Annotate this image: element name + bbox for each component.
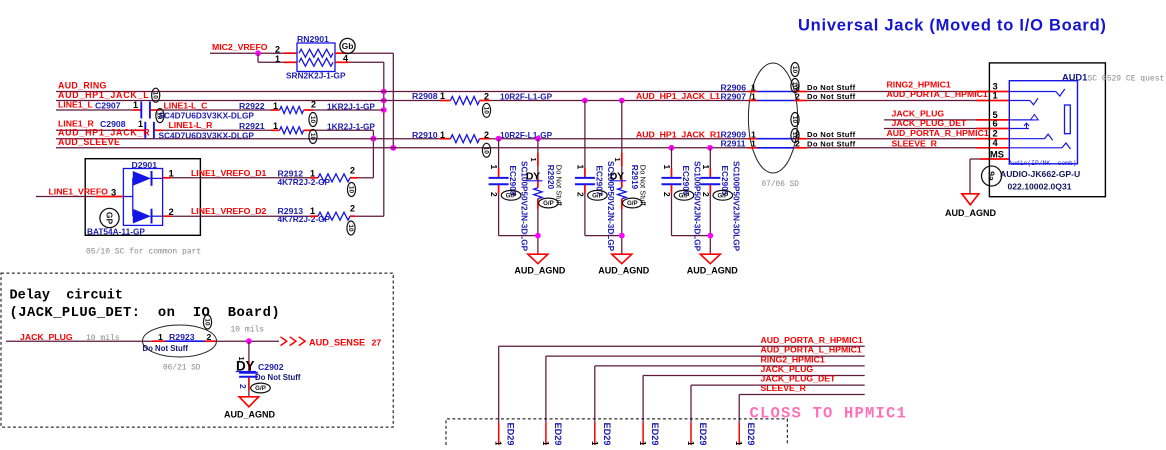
svg-text:G/P: G/P — [592, 193, 603, 200]
svg-text:10: 10 — [482, 147, 489, 155]
svg-text:2: 2 — [311, 99, 316, 109]
svg-text:LINE1-L_C: LINE1-L_C — [164, 100, 209, 110]
svg-text:Do Not Stuff: Do Not Stuff — [807, 139, 856, 148]
svg-text:Do Not Stuff: Do Not Stuff — [143, 344, 189, 353]
svg-text:05/10 SC for common part: 05/10 SC for common part — [86, 248, 201, 257]
svg-text:2: 2 — [238, 384, 248, 389]
svg-text:07/06 SD: 07/06 SD — [762, 181, 800, 189]
svg-text:022.10002.0Q31: 022.10002.0Q31 — [1008, 181, 1072, 191]
svg-text:1: 1 — [489, 165, 499, 170]
svg-text:SC4D7U6D3V3KX-DLGP: SC4D7U6D3V3KX-DLGP — [159, 111, 255, 121]
svg-text:Do Not Stuff: Do Not Stuff — [807, 130, 856, 139]
svg-text:10: 10 — [309, 133, 316, 141]
svg-text:6: 6 — [993, 119, 998, 129]
svg-text:2: 2 — [575, 192, 585, 197]
svg-text:(JACK_PLUG_DET: on IO Board: (JACK_PLUG_DET: on IO Board) — [10, 305, 281, 321]
svg-text:AUD_PORTA_L_HPMIC1: AUD_PORTA_L_HPMIC1 — [887, 89, 988, 99]
svg-text:AUD_HP1_JACK_R1: AUD_HP1_JACK_R1 — [636, 130, 721, 140]
svg-text:G/P: G/P — [627, 200, 638, 207]
svg-text:1: 1 — [590, 441, 600, 445]
svg-text:BAT54A-11-GP: BAT54A-11-GP — [87, 226, 145, 236]
svg-text:1: 1 — [273, 121, 278, 131]
svg-text:GP: GP — [104, 212, 114, 225]
svg-text:SC100P50V2JN-3DLGP: SC100P50V2JN-3DLGP — [731, 161, 740, 252]
svg-text:R2907: R2907 — [721, 91, 747, 101]
svg-text:RING2_HPMIC1: RING2_HPMIC1 — [887, 80, 951, 90]
svg-text:AUD_AGND: AUD_AGND — [598, 266, 650, 276]
svg-text:ED29: ED29 — [698, 423, 708, 446]
svg-text:10 mils: 10 mils — [231, 326, 265, 335]
svg-text:AUD_AGND: AUD_AGND — [224, 409, 276, 419]
svg-text:G/P: G/P — [506, 193, 517, 200]
svg-text:MIC2_VREFO: MIC2_VREFO — [212, 42, 268, 52]
svg-text:1: 1 — [613, 158, 622, 162]
svg-text:LINE1_VREFO: LINE1_VREFO — [49, 186, 109, 196]
svg-text:2: 2 — [701, 192, 711, 197]
svg-text:10: 10 — [347, 186, 354, 194]
svg-text:10R2F-L1-GP: 10R2F-L1-GP — [500, 91, 553, 101]
svg-text:1: 1 — [575, 165, 585, 170]
svg-text:ED29: ED29 — [506, 423, 516, 446]
svg-text:SLEEVE_R: SLEEVE_R — [892, 139, 938, 149]
svg-text:SRN2K2J-1-GP: SRN2K2J-1-GP — [286, 71, 346, 81]
svg-text:G/P: G/P — [255, 385, 266, 392]
svg-text:AUD_PORTA_R_HPMIC1: AUD_PORTA_R_HPMIC1 — [887, 128, 989, 138]
svg-text:4: 4 — [993, 138, 999, 148]
svg-text:AUD_HP1_JACK_L: AUD_HP1_JACK_L — [58, 90, 149, 100]
svg-text:AUDIO-JK662-GP-U: AUDIO-JK662-GP-U — [1000, 169, 1080, 179]
svg-text:1: 1 — [734, 441, 744, 445]
svg-text:LINE1_VREFO_D1: LINE1_VREFO_D1 — [191, 168, 266, 178]
svg-text:RING2_HPMIC1: RING2_HPMIC1 — [761, 354, 825, 364]
svg-text:10: 10 — [309, 116, 316, 124]
svg-text:Audio(IP/NK comb): Audio(IP/NK comb) — [1009, 160, 1077, 167]
svg-text:1: 1 — [440, 91, 445, 101]
svg-text:MS: MS — [990, 150, 1004, 160]
svg-text:1: 1 — [494, 441, 504, 445]
svg-text:10: 10 — [791, 82, 798, 90]
svg-text:RN2901: RN2901 — [297, 34, 329, 44]
svg-text:R2923: R2923 — [169, 332, 195, 342]
svg-text:4: 4 — [343, 54, 348, 64]
svg-text:2: 2 — [350, 165, 355, 175]
svg-text:10: 10 — [791, 116, 798, 124]
svg-text:Do Not Stuff: Do Not Stuff — [255, 373, 301, 382]
svg-text:Delay circuit: Delay circuit — [10, 289, 123, 304]
svg-text:9a: 9a — [986, 171, 996, 181]
svg-text:C2907: C2907 — [95, 100, 121, 110]
svg-text:AUD_AGND: AUD_AGND — [945, 208, 997, 218]
svg-text:JACK_PLUG: JACK_PLUG — [892, 109, 945, 119]
svg-text:27: 27 — [372, 337, 382, 347]
svg-text:10: 10 — [156, 112, 163, 120]
svg-text:1: 1 — [440, 130, 445, 140]
svg-text:CLOSS TO HPMIC1: CLOSS TO HPMIC1 — [750, 405, 908, 423]
svg-text:1: 1 — [686, 441, 696, 445]
svg-text:1: 1 — [751, 91, 756, 101]
svg-text:R2921: R2921 — [239, 121, 265, 131]
svg-text:ED29: ED29 — [650, 423, 660, 446]
svg-text:06/21 SD: 06/21 SD — [163, 365, 201, 373]
svg-text:AUD_PORTA_L_HPMIC1: AUD_PORTA_L_HPMIC1 — [761, 345, 862, 355]
svg-text:G/P: G/P — [679, 193, 690, 200]
svg-text:AUD_SLEEVE: AUD_SLEEVE — [58, 137, 120, 147]
svg-text:1: 1 — [529, 158, 538, 162]
svg-text:1: 1 — [993, 91, 998, 101]
svg-text:JACK_PLUG: JACK_PLUG — [20, 332, 73, 342]
svg-text:R2922: R2922 — [239, 101, 265, 111]
svg-text:R2908: R2908 — [412, 91, 438, 101]
svg-text:AUD_SENSE: AUD_SENSE — [309, 337, 365, 347]
svg-text:10: 10 — [791, 132, 798, 140]
svg-text:LINE1_VREFO_D2: LINE1_VREFO_D2 — [191, 206, 266, 216]
svg-text:C2902: C2902 — [258, 362, 284, 372]
svg-text:1: 1 — [638, 441, 648, 445]
svg-text:2: 2 — [662, 192, 672, 197]
svg-text:SC 0529 CE quest: SC 0529 CE quest — [1088, 74, 1165, 83]
svg-text:4K7R2J-2-GP: 4K7R2J-2-GP — [278, 214, 331, 224]
svg-text:10: 10 — [203, 318, 210, 326]
svg-text:1: 1 — [701, 165, 711, 170]
svg-text:ED29: ED29 — [746, 423, 756, 446]
svg-text:G/P: G/P — [717, 193, 728, 200]
svg-text:AUD_HP1_JACK_R: AUD_HP1_JACK_R — [58, 127, 150, 137]
svg-text:Do Not Stuff: Do Not Stuff — [807, 92, 856, 101]
svg-text:JACK_PLUG: JACK_PLUG — [761, 364, 814, 374]
svg-text:2: 2 — [484, 130, 489, 140]
svg-text:ED29: ED29 — [602, 423, 612, 446]
svg-text:1: 1 — [133, 100, 138, 110]
svg-text:R2910: R2910 — [412, 130, 438, 140]
svg-text:AUD1: AUD1 — [1062, 73, 1087, 83]
svg-text:1: 1 — [158, 332, 163, 342]
svg-text:10: 10 — [482, 107, 489, 115]
svg-text:Do Not Stuff: Do Not Stuff — [807, 83, 856, 92]
svg-text:1: 1 — [237, 357, 246, 361]
svg-text:R2911: R2911 — [721, 139, 746, 149]
svg-text:Universal Jack (Moved to I/O B: Universal Jack (Moved to I/O Board) — [798, 17, 1107, 35]
svg-text:1: 1 — [541, 441, 551, 445]
svg-text:AUD_HP1_JACK_L1: AUD_HP1_JACK_L1 — [636, 91, 720, 101]
svg-text:SLEEVE_R: SLEEVE_R — [761, 383, 807, 393]
svg-text:G/P: G/P — [543, 200, 554, 207]
svg-text:ED29: ED29 — [553, 423, 563, 446]
svg-text:10: 10 — [152, 92, 159, 100]
svg-text:2: 2 — [207, 332, 212, 342]
svg-text:10: 10 — [791, 66, 798, 74]
svg-text:10R2F-L1-GP: 10R2F-L1-GP — [500, 130, 553, 140]
svg-text:1: 1 — [275, 54, 280, 64]
svg-text:LINE1_L: LINE1_L — [58, 100, 93, 110]
svg-text:1: 1 — [751, 139, 756, 149]
svg-text:AUD_AGND: AUD_AGND — [514, 266, 566, 276]
svg-text:LINE1-L_R: LINE1-L_R — [169, 120, 214, 130]
svg-text:2: 2 — [489, 192, 499, 197]
svg-text:1: 1 — [662, 165, 672, 170]
svg-text:JACK_PLUG_DET: JACK_PLUG_DET — [892, 118, 968, 128]
svg-text:2: 2 — [484, 91, 489, 101]
svg-text:SC100P50V2JN-3DLGP: SC100P50V2JN-3DLGP — [693, 161, 702, 252]
svg-text:2: 2 — [350, 204, 355, 214]
svg-text:AUD_AGND: AUD_AGND — [687, 266, 739, 276]
svg-text:10: 10 — [347, 224, 354, 232]
svg-text:AUD_PORTA_R_HPMIC1: AUD_PORTA_R_HPMIC1 — [761, 335, 863, 345]
svg-text:Gb: Gb — [342, 41, 354, 51]
